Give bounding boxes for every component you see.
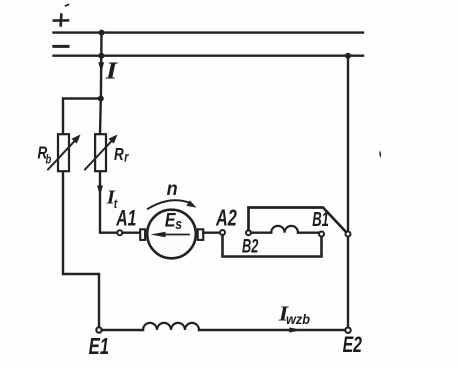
excitation winding E1-E2 bbox=[102, 329, 345, 331]
svg-text:wzb: wzb bbox=[286, 311, 310, 327]
wire: Rb bottom to E1 bbox=[63, 172, 99, 326]
svg-text:s: s bbox=[175, 216, 182, 232]
wire: junction to left branch bbox=[63, 99, 101, 135]
resistor Rb body bbox=[58, 134, 69, 171]
Es arrow inside motor bbox=[151, 232, 190, 237]
svg-text:E2: E2 bbox=[343, 334, 363, 358]
motor armature circle bbox=[147, 210, 196, 259]
current arrow I bbox=[98, 62, 104, 72]
terminal B1 bbox=[319, 232, 324, 237]
wire: Rr bottom to A1 bbox=[100, 172, 117, 232]
stray ink dot top bbox=[66, 5, 69, 6]
wire: B2 up over to rail (diagonal) bbox=[249, 208, 346, 232]
svg-text:B1: B1 bbox=[312, 208, 329, 230]
minus label bbox=[54, 45, 68, 48]
svg-text:R: R bbox=[114, 145, 124, 164]
svg-text:b: b bbox=[46, 153, 52, 167]
terminal E2 bbox=[345, 328, 350, 333]
svg-text:r: r bbox=[124, 149, 129, 164]
wire: right brush to A2 bbox=[203, 231, 220, 233]
junction dot on negative rail right bbox=[345, 53, 351, 59]
negative supply rail bbox=[54, 55, 364, 57]
positive supply rail bbox=[54, 31, 364, 33]
current arrow Iwzb bbox=[289, 327, 302, 332]
stray tick right side bbox=[379, 151, 381, 158]
junction dot at resistor split bbox=[98, 96, 104, 102]
wire: junction down through Rr bbox=[99, 99, 102, 135]
wire: positive rail down to junction bbox=[100, 33, 103, 99]
terminal A2 bbox=[220, 230, 225, 235]
terminal E1 bbox=[96, 327, 101, 332]
left brush of motor bbox=[140, 229, 145, 240]
resistor Rr body bbox=[95, 134, 106, 171]
right brush of motor bbox=[198, 229, 204, 240]
plus label bbox=[54, 15, 68, 26]
junction terminal on right rail bbox=[346, 232, 351, 237]
resistor Rb adjustment arrow bbox=[48, 135, 81, 170]
svg-text:A1: A1 bbox=[115, 206, 136, 231]
rotation arrow n bbox=[148, 200, 191, 209]
svg-text:B2: B2 bbox=[242, 236, 258, 257]
right rail vertical wire bbox=[347, 56, 349, 327]
svg-text:E1: E1 bbox=[89, 335, 110, 360]
terminal A1 bbox=[117, 230, 122, 235]
svg-text:n: n bbox=[167, 178, 178, 200]
wire: A2 down and right to B1 bbox=[223, 235, 322, 257]
junction dot on positive rail bbox=[99, 30, 105, 36]
terminal B2 bbox=[246, 230, 251, 235]
wire: A1 to left brush bbox=[122, 231, 140, 233]
svg-text:I: I bbox=[105, 57, 119, 84]
svg-text:A2: A2 bbox=[215, 206, 237, 231]
junction dot on negative rail bbox=[98, 53, 104, 59]
resistor Rr adjustment arrow bbox=[85, 135, 118, 170]
commutating winding B2-B1 bbox=[251, 231, 319, 233]
current arrow It bbox=[97, 186, 103, 196]
